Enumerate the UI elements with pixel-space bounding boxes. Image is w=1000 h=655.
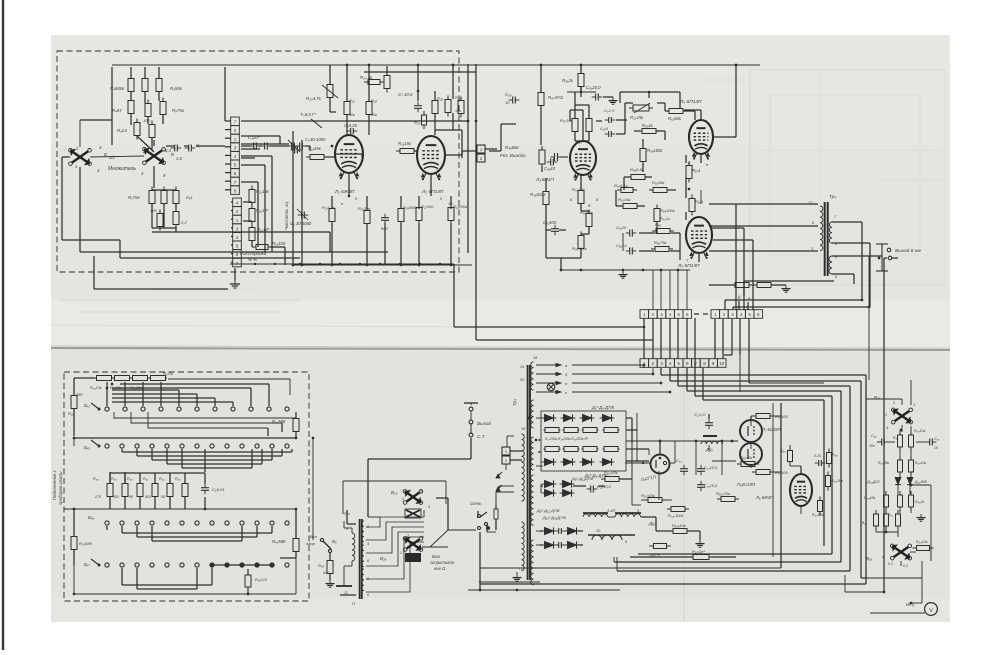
svg-text:R₅₄5,1к: R₅₄5,1к	[614, 183, 629, 188]
svg-text:56: 56	[161, 495, 165, 499]
svg-text:R₄₄588: R₄₄588	[272, 419, 286, 424]
svg-text:10: 10	[505, 100, 510, 105]
svg-text:R₂₀4,7к: R₂₀4,7к	[306, 96, 322, 101]
svg-text:С₆₁10: С₆₁10	[616, 225, 627, 230]
svg-text:R₈₉43к: R₈₉43к	[915, 461, 927, 465]
svg-text:R₂₂: R₂₂	[349, 98, 355, 103]
svg-text:2: 2	[234, 128, 237, 133]
svg-text:R₄₅3,8: R₄₅3,8	[255, 577, 267, 582]
svg-text:Подключение к: Подключение к	[52, 469, 57, 500]
svg-text:С₃₅: С₃₅	[934, 437, 940, 441]
svg-text:R₄₇47Ω: R₄₇47Ω	[548, 95, 563, 100]
svg-text:4: 4	[421, 535, 423, 539]
svg-text:R₉₅100: R₉₅100	[775, 414, 789, 419]
svg-text:8: 8	[234, 188, 237, 193]
svg-text:R₁₀₂43к: R₁₀₂43к	[641, 493, 656, 498]
svg-text:1: 1	[75, 164, 77, 169]
svg-text:603: 603	[145, 495, 151, 499]
svg-text:R₄₈510к: R₄₈510к	[530, 192, 546, 197]
svg-text:R₅₅ 3,6к: R₅₅ 3,6к	[572, 246, 588, 251]
svg-text:Д₉*-Д₁₂ Д7Ж: Д₉*-Д₁₂ Д7Ж	[536, 508, 560, 513]
svg-text:300: 300	[150, 208, 157, 213]
svg-text:1: 1	[402, 497, 404, 501]
svg-text:1,6: 1,6	[176, 156, 182, 161]
svg-text:R₅75к: R₅75к	[172, 108, 185, 113]
svg-text:Выход: Выход	[477, 421, 491, 426]
svg-text:5: 5	[748, 312, 751, 317]
svg-text:С₇ 10,0: С₇ 10,0	[398, 92, 413, 97]
svg-text:6: 6	[686, 312, 689, 317]
svg-text:R₂₂39к: R₂₂39к	[358, 206, 371, 211]
svg-text:R₂₉: R₂₉	[437, 96, 443, 101]
svg-text:С₈ 0,01: С₈ 0,01	[212, 487, 225, 492]
svg-text:R₃₈: R₃₈	[93, 477, 99, 481]
svg-text:R₂₁1,5к: R₂₁1,5к	[322, 205, 336, 210]
svg-text:588: 588	[76, 393, 83, 397]
svg-text:R₄₃: R₄₃	[175, 477, 181, 481]
svg-text:4: 4	[740, 312, 743, 317]
svg-text:R₄₁: R₄₁	[143, 477, 149, 481]
svg-text:1: 1	[714, 312, 717, 317]
svg-text:R₆₂68к: R₆₂68к	[668, 116, 682, 121]
svg-text:R₃24: R₃24	[117, 128, 127, 133]
svg-text:3: 3	[731, 312, 734, 317]
svg-text:100: 100	[143, 118, 150, 123]
svg-text:1: 1	[885, 413, 887, 417]
svg-text:R₅₁2к: R₅₁2к	[562, 78, 574, 83]
svg-text:4: 4	[236, 201, 239, 206]
svg-text:R₁₆10*: R₁₆10*	[256, 208, 269, 213]
svg-text:R₁₀₇2к*: R₁₀₇2к*	[692, 549, 705, 554]
svg-text:С₄ 30-1080: С₄ 30-1080	[305, 137, 326, 142]
svg-text:0,25: 0,25	[814, 454, 821, 458]
svg-text:R₆₅1к: R₆₅1к	[660, 217, 670, 221]
svg-text:1: 1	[400, 551, 402, 555]
svg-text:2: 2	[652, 361, 655, 366]
svg-text:R₈₆2к: R₈₆2к	[915, 500, 925, 504]
svg-text:В: В	[171, 152, 174, 157]
svg-text:R₅1: R₅1	[186, 195, 193, 200]
svg-text:10: 10	[934, 446, 938, 450]
svg-text:2: 2	[723, 312, 726, 317]
svg-text:12: 12	[808, 200, 813, 205]
svg-text:R₆₈1: R₆₈1	[695, 199, 703, 204]
svg-text:Т=8,0 Г*: Т=8,0 Г*	[300, 112, 316, 117]
svg-text:3: 3	[234, 145, 237, 150]
svg-text:С₅₈10: С₅₈10	[544, 166, 556, 171]
svg-text:3-4П: 3-4П	[607, 509, 615, 513]
svg-text:R₅₄100: R₅₄100	[572, 187, 586, 192]
svg-text:V: V	[929, 608, 933, 614]
svg-text:% %: % %	[248, 257, 257, 262]
svg-text:10к: 10к	[455, 109, 461, 113]
svg-text:20: 20	[519, 378, 525, 382]
svg-text:4: 4	[882, 555, 884, 559]
svg-text:Множитель: Множитель	[108, 166, 136, 172]
svg-text:П: П	[352, 601, 355, 606]
svg-text:С₂₂10,0: С₂₂10,0	[704, 466, 718, 470]
svg-text:R₆₆75к: R₆₆75к	[654, 240, 668, 245]
svg-text:В₂₅: В₂₅	[862, 521, 868, 525]
svg-text:R₁₈15к: R₁₈15к	[308, 146, 322, 151]
svg-text:Л₁ 6Ж3П: Л₁ 6Ж3П	[334, 189, 355, 195]
svg-text:Д₂₀Д22: Д₂₀Д22	[866, 480, 881, 484]
svg-text:В₄₅: В₄₅	[84, 445, 90, 450]
svg-text:Л₂ 6П14П: Л₂ 6П14П	[421, 189, 444, 195]
svg-text:Л₅ 6П14П: Л₅ 6П14П	[677, 263, 700, 269]
svg-text:R₅₈1к: R₅₈1к	[642, 123, 654, 128]
svg-text:Д₉*-Д₁₂Д7Ж: Д₉*-Д₁₂Д7Ж	[571, 476, 594, 481]
svg-text:6,3: 6,3	[903, 564, 908, 568]
svg-text:R₂₇100: R₂₇100	[421, 204, 434, 209]
svg-text:R₄₉68к: R₄₉68к	[505, 145, 520, 150]
svg-text:7: 7	[236, 261, 239, 266]
svg-text:10: 10	[719, 361, 725, 366]
svg-text:5: 5	[677, 361, 680, 366]
svg-text:Тр₄: Тр₄	[829, 194, 836, 200]
svg-text:270: 270	[94, 495, 101, 499]
svg-text:1/2: 1/2	[109, 155, 115, 160]
svg-text:R₄₀: R₄₀	[127, 477, 133, 481]
svg-text:С₅₀: С₅₀	[505, 92, 512, 97]
svg-text:5: 5	[234, 163, 237, 168]
svg-text:R₃₇1к: R₃₇1к	[163, 371, 174, 376]
svg-text:Выход 8 ом: Выход 8 ом	[895, 248, 921, 254]
svg-text:В₂₆: В₂₆	[380, 556, 387, 561]
svg-text:8: 8	[703, 361, 706, 366]
svg-text:С₅0,25: С₅0,25	[344, 123, 358, 128]
svg-text:Л₄ 6П14П: Л₄ 6П14П	[679, 99, 702, 105]
svg-text:R₇75к: R₇75к	[128, 195, 141, 200]
svg-text:9: 9	[712, 361, 715, 366]
svg-text:R₃₉: R₃₉	[111, 477, 117, 481]
svg-text:R₈₅58к: R₈₅58к	[878, 461, 890, 465]
svg-text:Л₃ 6Н1П: Л₃ 6Н1П	[535, 177, 554, 183]
svg-text:С.Т.: С.Т.	[477, 434, 486, 439]
svg-text:R₁₀₃70к: R₁₀₃70к	[716, 491, 731, 496]
svg-text:С₂₉: С₂₉	[676, 459, 682, 463]
svg-text:С₁₀0: С₁₀0	[600, 126, 609, 131]
svg-text:6: 6	[236, 252, 239, 257]
svg-text:3: 3	[660, 361, 663, 366]
svg-text:600: 600	[323, 571, 330, 575]
svg-text:В₂₀: В₂₀	[391, 490, 398, 495]
svg-text:С₃20*: С₃20*	[248, 135, 260, 140]
svg-text:Сеть: Сеть	[470, 501, 482, 506]
svg-text:6: 6	[234, 171, 237, 176]
svg-text:4: 4	[669, 312, 672, 317]
svg-text:3: 3	[236, 226, 239, 231]
svg-text:R₉₁: R₉₁	[888, 513, 893, 517]
svg-text:Частота, гц: Частота, гц	[284, 202, 289, 230]
svg-text:4: 4	[886, 426, 888, 430]
svg-text:R₈₈: R₈₈	[893, 436, 899, 440]
svg-text:В₄₇: В₄₇	[84, 562, 90, 567]
svg-text:50к: 50к	[349, 113, 355, 117]
svg-text:6: 6	[757, 312, 760, 317]
svg-text:4: 4	[428, 505, 430, 509]
svg-text:R₉₇82к: R₉₇82к	[812, 513, 824, 517]
svg-text:Вых: Вых	[432, 554, 441, 559]
svg-text:Расстройка: Расстройка	[240, 250, 267, 256]
svg-text:С₃₄: С₃₄	[871, 434, 877, 438]
svg-text:R₉₃10а: R₉₃10а	[916, 540, 927, 544]
svg-text:6: 6	[686, 361, 689, 366]
svg-text:R₆₀: R₆₀	[655, 222, 661, 227]
svg-text:56: 56	[129, 495, 133, 499]
svg-text:R₃₀: R₃₀	[455, 95, 461, 100]
svg-text:R₂₅: R₂₅	[414, 120, 420, 125]
svg-text:4: 4	[236, 235, 239, 240]
svg-text:R₇₇200к R₇₈200к R₇₉200к R*: R₇₇200к R₇₈200к R₇₉200к R*	[545, 437, 589, 441]
svg-text:R₉₆: R₉₆	[832, 453, 838, 457]
svg-text:R₆₄100к: R₆₄100к	[660, 208, 676, 213]
svg-text:R₂₆: R₂₆	[371, 98, 377, 103]
svg-text:С₅₆20,0: С₅₆20,0	[586, 85, 601, 90]
svg-text:Л₆ 6Ж3П: Л₆ 6Ж3П	[755, 495, 774, 500]
svg-text:4: 4	[367, 542, 369, 546]
svg-text:П: П	[519, 566, 522, 571]
svg-text:2: 2	[652, 312, 655, 317]
svg-text:R₄₃588: R₄₃588	[272, 539, 286, 544]
svg-text:С₅₁400: С₅₁400	[543, 220, 557, 225]
svg-text:R₂₄ 3к: R₂₄ 3к	[360, 75, 373, 80]
svg-text:R₅₉100к: R₅₉100к	[647, 148, 663, 153]
svg-text:R₂₈15к: R₂₈15к	[398, 141, 412, 146]
svg-text:R₄67: R₄67	[112, 108, 122, 113]
svg-text:1: 1	[234, 137, 237, 142]
svg-text:приборам шкалы: приборам шкалы	[58, 471, 63, 505]
svg-text:7: 7	[234, 120, 237, 125]
svg-text:4: 4	[234, 154, 237, 159]
svg-text:Д₁₃*-Д₁₆Д7Ж: Д₁₃*-Д₁₆Д7Ж	[542, 515, 566, 520]
svg-text:R₃₁100к: R₃₁100к	[453, 204, 468, 209]
svg-text:R₈₈10к: R₈₈10к	[914, 429, 926, 433]
svg-text:R₁₇ 10*: R₁₇ 10*	[257, 227, 270, 232]
svg-text:R₉₄100: R₉₄100	[775, 470, 789, 475]
svg-text:2: 2	[236, 209, 239, 214]
svg-text:R₁₀₂43к: R₁₀₂43к	[604, 470, 619, 475]
svg-text:R₁₈100: R₁₈100	[272, 241, 286, 246]
svg-text:R₃₄13к: R₃₄13к	[90, 386, 102, 390]
svg-text:в: в	[565, 381, 567, 386]
svg-text:В₅: В₅	[332, 539, 337, 544]
svg-text:R₈₃43к: R₈₃43к	[864, 496, 876, 500]
svg-text:R₃₃588: R₃₃588	[79, 541, 93, 546]
svg-text:В₁₆: В₁₆	[866, 556, 872, 561]
svg-text:4: 4	[669, 361, 672, 366]
svg-text:г: г	[565, 390, 567, 395]
svg-text:напр: напр	[306, 541, 316, 546]
svg-text:R₅58к: R₅58к	[170, 86, 183, 91]
svg-text:30н: 30н	[869, 444, 875, 448]
svg-text:Рег. Выхода: Рег. Выхода	[500, 153, 526, 158]
svg-text:Др₁: Др₁	[648, 521, 656, 526]
svg-text:Д₂₂ 80К: Д₂₂ 80К	[914, 480, 928, 484]
svg-text:С₂₇1,0: С₂₇1,0	[694, 412, 706, 417]
svg-text:В₄₆: В₄₆	[88, 515, 94, 520]
svg-text:2,2: 2,2	[180, 220, 187, 225]
svg-text:Л₈ 6С19П: Л₈ 6С19П	[736, 482, 756, 487]
svg-text:R₁₅10к: R₁₅10к	[256, 189, 270, 194]
svg-text:R₆₁ 16к: R₆₁ 16к	[618, 197, 632, 202]
svg-text:сопротивле-: сопротивле-	[430, 560, 456, 565]
svg-text:603: 603	[113, 495, 119, 499]
svg-text:R₁₀₅100к: R₁₀₅100к	[668, 514, 683, 518]
svg-text:С₆ 30-1080: С₆ 30-1080	[290, 221, 312, 226]
svg-text:R₅₇ 10к: R₅₇ 10к	[560, 118, 574, 123]
svg-text:R₄₂: R₄₂	[159, 477, 165, 481]
svg-text:Д₁*-Д₄ Д7Ж: Д₁*-Д₄ Д7Ж	[591, 405, 615, 410]
svg-text:Д₆ТН: Д₆ТН	[649, 552, 660, 557]
svg-text:Л₇ 6С19П: Л₇ 6С19П	[761, 427, 782, 432]
svg-text:С₉ 1,0: С₉ 1,0	[604, 108, 615, 113]
svg-text:R₁₀₆10к: R₁₀₆10к	[672, 523, 687, 528]
svg-text:6,3: 6,3	[888, 562, 893, 566]
svg-text:5: 5	[236, 244, 239, 249]
svg-text:С₆₂10: С₆₂10	[616, 243, 627, 248]
svg-text:5: 5	[677, 312, 680, 317]
svg-text:50к: 50к	[371, 113, 377, 117]
svg-text:R₆₃39к: R₆₃39к	[652, 180, 666, 185]
svg-text:R₂₉550к: R₂₉550к	[403, 205, 419, 210]
svg-text:R₅₂ 15к: R₅₂ 15к	[630, 115, 644, 120]
svg-text:7: 7	[234, 180, 237, 185]
svg-text:С₂₄10,0: С₂₄10,0	[704, 484, 718, 488]
svg-text:ние Ω: ние Ω	[434, 566, 446, 571]
svg-text:1: 1	[643, 312, 646, 317]
svg-text:R₄₆: R₄₆	[318, 563, 324, 568]
svg-text:В₄₂: В₄₂	[84, 403, 90, 408]
svg-text:Тр₃: Тр₃	[512, 399, 517, 406]
svg-text:1: 1	[236, 218, 239, 223]
svg-text:R₆₇1: R₆₇1	[692, 168, 701, 173]
svg-text:Вкл: Вкл	[310, 534, 318, 539]
svg-text:3: 3	[660, 312, 663, 317]
svg-text:R₉₉ 20к: R₉₉ 20к	[831, 479, 843, 483]
